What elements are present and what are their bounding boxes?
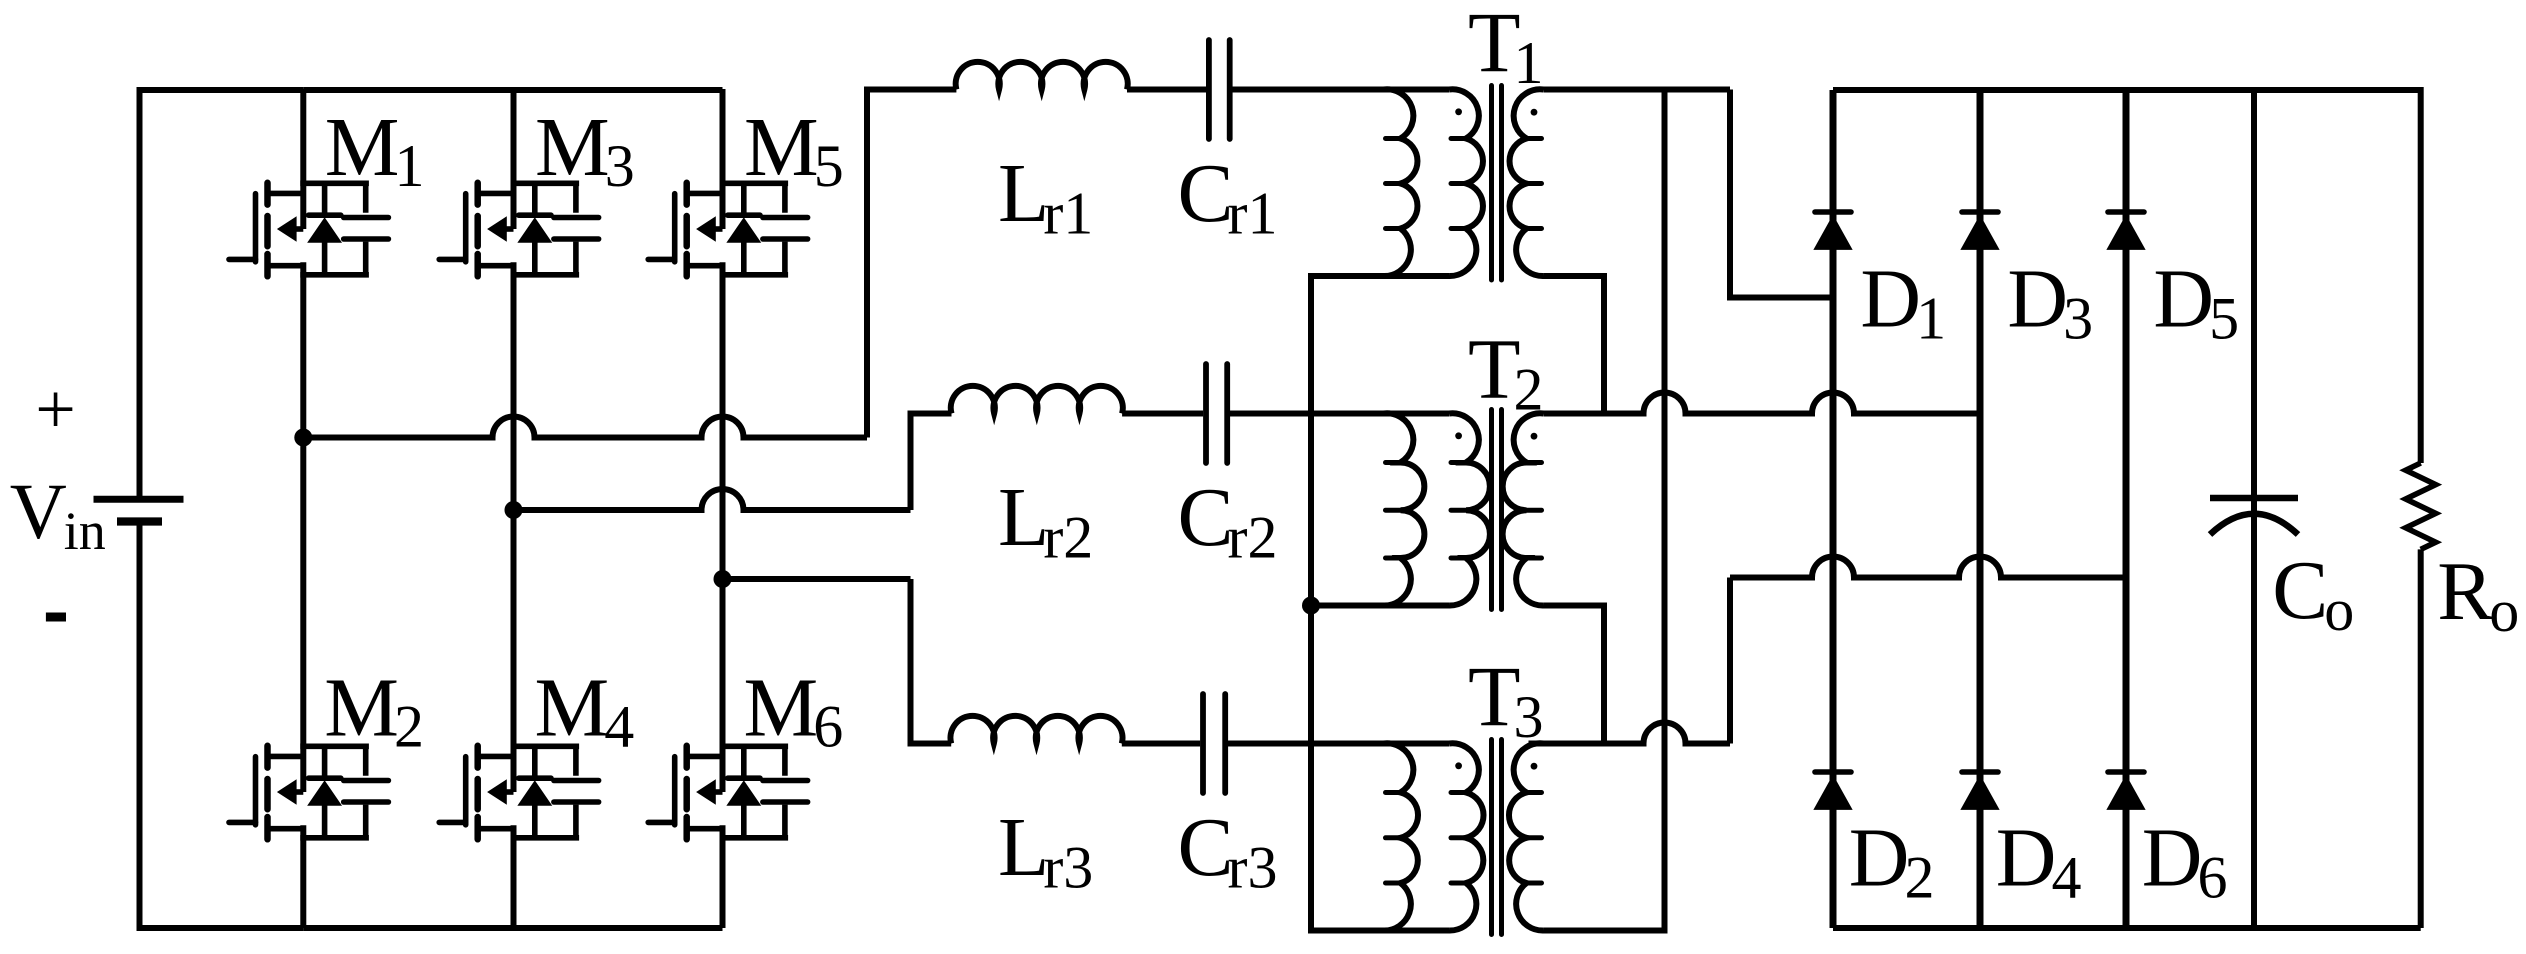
wire: rectifier leg 2 — [1977, 90, 1984, 928]
transistor M3 (MOSFET cell) — [439, 183, 598, 276]
wire: phase 3 link to D5 (hops over D1, D3 legs) — [1730, 557, 2126, 578]
diode D2 cathode bar — [1815, 769, 1851, 775]
wire: Lr3 to Cr3 — [1122, 741, 1200, 747]
wire: input bus top-left corner / left rail upper — [140, 90, 304, 497]
diode D4 triangle — [1961, 776, 1999, 810]
transformer T2 primary dot — [1455, 432, 1462, 439]
transistor M3 drain leg — [511, 89, 517, 229]
wire: phase B to riser (hop over M6 leg) — [514, 489, 911, 510]
wire: top bus segment M3 to M5 — [514, 87, 723, 93]
diode D5 triangle — [2107, 216, 2145, 250]
svg-text:D4: D4 — [1996, 812, 2082, 911]
battery Vin short plate — [117, 517, 162, 525]
svg-text:M2: M2 — [324, 662, 424, 760]
svg-text:D1: D1 — [1860, 253, 1946, 352]
transistor M4 drain leg — [511, 510, 517, 792]
diode D1 cathode bar — [1815, 209, 1851, 215]
transformer T2 secondary dot — [1531, 433, 1538, 440]
transformer T3 magnetizing winding — [1384, 743, 1419, 930]
transistor M4 source leg — [511, 825, 517, 928]
diode D6 triangle — [2107, 776, 2145, 810]
svg-text:D2: D2 — [1849, 812, 1935, 911]
wire: rectifier top bus — [1833, 87, 2421, 93]
capacitor Cr1 left plate — [1206, 40, 1212, 139]
capacitor Cr2 left plate — [1203, 364, 1209, 463]
transformer T2 magnetizing winding — [1384, 413, 1425, 605]
wire: top bus segment M1 to M3 — [303, 87, 513, 93]
transistor M5 source leg — [720, 262, 726, 579]
capacitor Cr3 left plate — [1200, 694, 1206, 793]
transformer T1 magnetizing winding — [1384, 89, 1418, 276]
wire: T2 primary bottom rail — [1311, 603, 1449, 609]
capacitor Co bottom plate (curved) — [2210, 514, 2298, 535]
svg-text:Lr1: Lr1 — [998, 147, 1093, 247]
diode D6 cathode bar — [2108, 769, 2144, 775]
wire: phase B riser up — [911, 414, 952, 511]
wire: T3 primary bottom rail — [1311, 928, 1449, 934]
diode D2 triangle — [1814, 776, 1852, 810]
transistor M3 source leg — [511, 262, 517, 510]
wire: Co leg — [2251, 90, 2257, 928]
transistor M5 (MOSFET cell) — [648, 183, 807, 276]
wire: T2 secondary top rail to D3 (hops at delta vertical and D1 leg) — [1544, 393, 1981, 414]
transformer T3 secondary winding — [1509, 743, 1544, 930]
transformer T1 secondary dot — [1531, 109, 1538, 116]
capacitor Cr2 right plate — [1224, 364, 1230, 463]
svg-text:D5: D5 — [2153, 253, 2239, 352]
transformer T2 primary winding — [1449, 413, 1490, 605]
transistor M5 drain leg — [720, 89, 726, 229]
wire: T1 secondary bottom rail — [1544, 276, 1605, 411]
svg-text:T3: T3 — [1468, 648, 1544, 750]
capacitor Cr3 right plate — [1222, 694, 1228, 793]
wire: phase C riser down — [911, 579, 952, 744]
wire: delta long vertical (T3 bottom to T1 top) — [1662, 87, 1668, 934]
svg-text:M5: M5 — [744, 101, 844, 199]
capacitor Co top plate — [2210, 495, 2298, 502]
transistor M4 (MOSFET cell) — [439, 746, 598, 840]
wire: T3 secondary bottom rail — [1544, 928, 1665, 934]
transistor M6 (MOSFET cell) — [648, 746, 807, 840]
transformer T3 secondary dot — [1531, 763, 1538, 770]
wire: rectifier bottom bus — [1833, 925, 2421, 931]
diode D4 cathode bar — [1962, 769, 1998, 775]
transistor M6 drain leg — [720, 579, 726, 792]
diode D3 triangle — [1961, 216, 1999, 250]
node B junction dot — [505, 501, 523, 519]
svg-text:Lr2: Lr2 — [998, 471, 1093, 571]
transistor M2 source leg — [300, 825, 306, 928]
svg-text:T2: T2 — [1468, 321, 1544, 423]
wire: phase 1 riser and link to D1 — [1730, 90, 1833, 298]
inductor Lr3 — [950, 716, 1122, 744]
svg-text:Co: Co — [2272, 544, 2354, 643]
inductor Lr1 — [956, 62, 1128, 90]
inductor Lr2 — [951, 386, 1123, 414]
node A junction dot — [294, 429, 312, 447]
svg-text:M1: M1 — [325, 101, 425, 199]
diode D1 triangle — [1814, 216, 1852, 250]
node star junction dot — [1302, 597, 1320, 615]
transformer T1 secondary winding — [1510, 89, 1544, 276]
resistor Ro zigzag — [2406, 463, 2436, 549]
wire: T3 secondary top rail (hop at delta vertical) — [1529, 723, 1731, 744]
transformer T3 primary winding — [1449, 743, 1484, 930]
svg-text:Lr3: Lr3 — [998, 801, 1093, 901]
svg-text:Ro: Ro — [2437, 545, 2519, 644]
transistor M1 source leg — [300, 262, 306, 437]
svg-text:Cr3: Cr3 — [1178, 801, 1278, 901]
svg-text:Cr2: Cr2 — [1178, 471, 1278, 571]
wire: bottom bus segment M4 to M6 — [514, 925, 723, 931]
capacitor Cr1 right plate — [1227, 40, 1233, 139]
diode D5 cathode bar — [2108, 209, 2144, 215]
transistor M1 drain leg — [300, 89, 306, 229]
wire: phase A to riser (hops over M3, M5 legs) — [303, 417, 867, 438]
wire: Cr3 to T3 primary — [1228, 741, 1449, 747]
wire: left rail lower — [140, 522, 304, 929]
wire: Cr1 to T1 primary — [1233, 87, 1450, 93]
transformer T1 core — [1492, 86, 1502, 281]
wire: T2 secondary bottom rail — [1544, 606, 1605, 741]
transformer T2 secondary winding — [1503, 413, 1544, 605]
transformer T3 primary dot — [1455, 762, 1462, 769]
wire: bottom bus segment M2 to M4 — [303, 925, 513, 931]
wire: rectifier leg 1 — [1830, 90, 1837, 928]
wire: T1 primary bottom rail — [1311, 273, 1449, 279]
transistor M2 drain leg — [300, 438, 306, 793]
wire: Lr1 to Cr1 — [1127, 87, 1206, 93]
node C junction dot — [714, 570, 732, 588]
transistor M2 (MOSFET cell) — [229, 746, 388, 840]
transistor M6 source leg — [720, 825, 726, 928]
wire: primary star vertical — [1308, 273, 1314, 934]
svg-text:D3: D3 — [2007, 253, 2093, 352]
transformer T1 primary dot — [1455, 108, 1462, 115]
svg-text:M4: M4 — [535, 662, 635, 760]
wire: phase C to riser — [723, 576, 911, 582]
svg-text:Cr1: Cr1 — [1178, 147, 1278, 247]
svg-text:M3: M3 — [535, 101, 635, 199]
wire: phase A riser up — [867, 90, 956, 438]
wire: Ro leg lower — [2418, 549, 2424, 928]
wire: Cr2 to T2 primary — [1230, 411, 1449, 417]
wire: rectifier leg 3 — [2123, 90, 2130, 928]
svg-text:+: + — [35, 369, 76, 449]
label - (Vin negative) — [46, 613, 66, 622]
svg-text:D6: D6 — [2142, 812, 2228, 911]
transformer T3 core — [1492, 740, 1502, 935]
diode D3 cathode bar — [1962, 209, 1998, 215]
wire: Lr2 to Cr2 — [1122, 411, 1203, 417]
transistor M1 (MOSFET cell) — [229, 183, 388, 276]
battery Vin long plate — [94, 496, 184, 503]
svg-text:Vin: Vin — [10, 469, 106, 561]
wire: phase 3 riser — [1727, 578, 1733, 744]
transformer T2 core — [1492, 410, 1502, 610]
wire: Ro leg upper — [2418, 87, 2424, 463]
svg-text:M6: M6 — [744, 662, 844, 760]
svg-text:T1: T1 — [1468, 0, 1544, 96]
wire: T1 secondary top rail to phase riser — [1544, 87, 1731, 93]
transformer T1 primary winding — [1449, 89, 1483, 276]
